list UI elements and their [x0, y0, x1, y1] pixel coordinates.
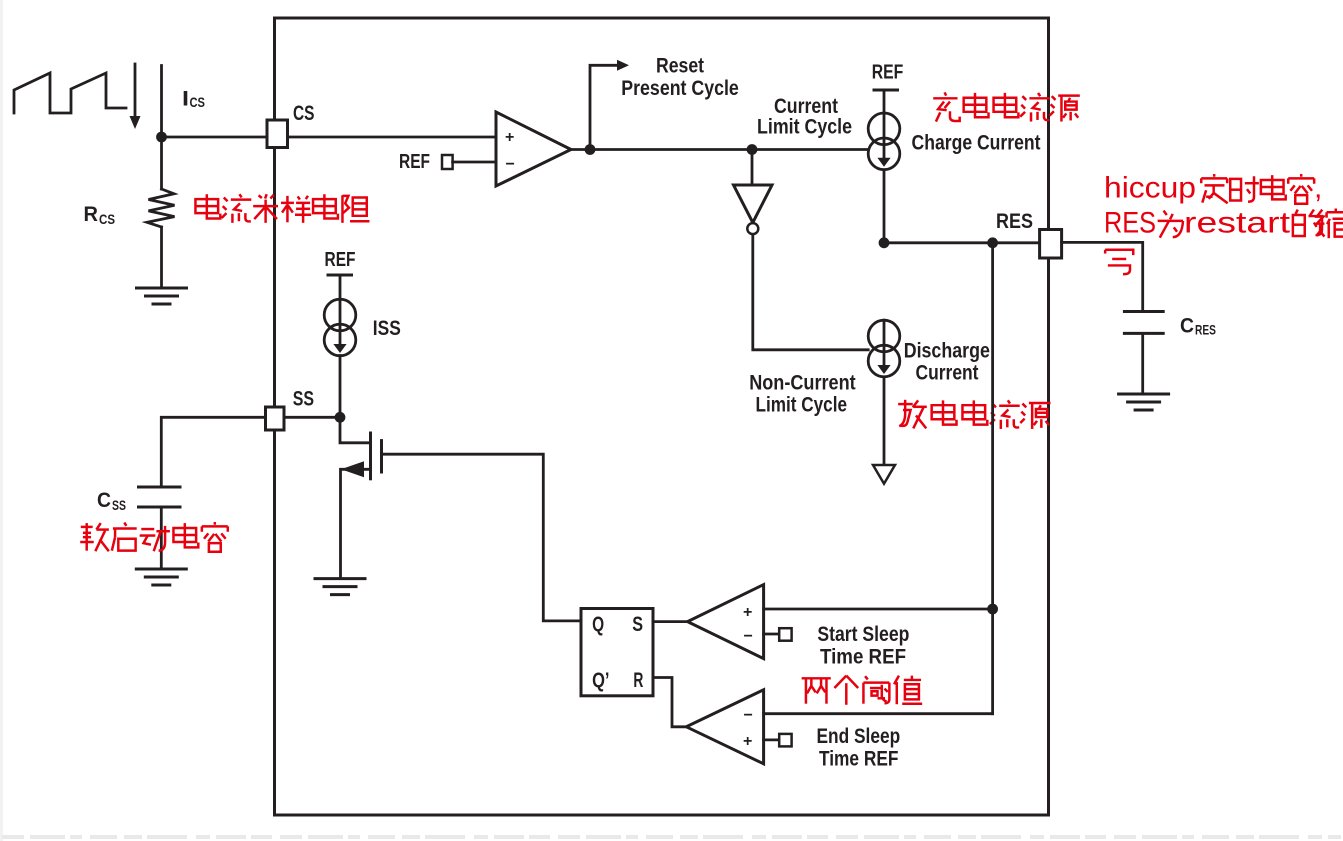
red note: two thresholds 两个阈值	[802, 676, 923, 705]
wire gate to latch	[382, 454, 582, 621]
red note line1 hiccup timing cap	[1104, 172, 1322, 205]
pin CS	[267, 120, 288, 148]
capacitor CSS	[139, 487, 181, 568]
wire comparator output main	[571, 148, 868, 151]
svg-text:Q: Q	[592, 613, 604, 636]
svg-text:SS: SS	[112, 497, 126, 513]
terminal square end sleep	[779, 734, 791, 747]
svg-text:REF: REF	[399, 151, 430, 173]
sawtooth current waveform	[14, 73, 126, 113]
resistor RCS	[147, 137, 175, 288]
wire REF to ISS source	[339, 275, 342, 300]
wire charge source to RES node	[883, 170, 886, 243]
label Discharge Current	[904, 339, 990, 384]
label REF	[399, 151, 430, 173]
svg-text:R: R	[84, 203, 99, 226]
svg-text:RES: RES	[1104, 207, 1156, 240]
reset arrow wire	[590, 60, 629, 150]
svg-text:−: −	[744, 628, 753, 645]
wire discharge source down	[883, 378, 886, 465]
wire U3 + input	[764, 608, 993, 611]
svg-text:Time REF: Time REF	[819, 747, 899, 770]
svg-text:CS: CS	[190, 94, 206, 110]
wire RES node down to sleep comparators	[991, 243, 994, 714]
red note: charge current source 充电电流源	[933, 92, 1080, 121]
wire U4 + input	[764, 739, 779, 742]
inverter U5	[734, 150, 773, 235]
capacitor CRES	[1124, 312, 1163, 394]
node U3 input	[987, 604, 998, 615]
wire SS pin to CSS	[161, 417, 265, 485]
wire U4 - input	[764, 712, 993, 715]
svg-text:RES: RES	[1195, 322, 1216, 338]
scan artifact left edge	[0, 0, 3, 841]
IC outline box	[275, 18, 1049, 815]
REF terminal square	[442, 155, 453, 169]
svg-text:REF: REF	[325, 249, 356, 271]
wire CS pin to comparator + input	[288, 136, 497, 139]
red note: discharge current source 放电电流源	[898, 400, 1050, 429]
ground CRES	[1119, 394, 1169, 410]
svg-text:Start Sleep: Start Sleep	[817, 623, 909, 646]
current source discharge	[868, 320, 900, 377]
red note: soft start cap 软启动电容	[80, 522, 228, 552]
node inverter tap	[747, 144, 758, 155]
label Non-Current Limit Cycle	[749, 371, 856, 416]
node RES row right	[987, 237, 998, 248]
wire ISS to SS node	[339, 356, 342, 418]
wire RES pin to CRES	[1062, 242, 1143, 311]
svg-text:I: I	[182, 88, 189, 111]
svg-text:+: +	[743, 733, 752, 750]
node comparator output	[585, 144, 596, 155]
svg-text:Charge Current: Charge Current	[912, 131, 1041, 154]
svg-text:Discharge: Discharge	[904, 339, 990, 362]
label CRES	[1180, 315, 1216, 338]
label SS	[293, 388, 314, 411]
node RES row left	[879, 237, 890, 248]
label Reset Present Cycle	[621, 55, 739, 101]
svg-text:Reset: Reset	[656, 55, 704, 78]
svg-text:Q’: Q’	[592, 669, 609, 692]
svg-text:−: −	[506, 156, 515, 173]
terminal square start sleep	[779, 628, 791, 641]
REF rail bar ISS	[328, 274, 352, 277]
op-amp U1 comparator	[496, 112, 571, 186]
svg-text:restart: restart	[1184, 207, 1291, 240]
label REF ISS	[325, 249, 356, 271]
label RCS	[84, 203, 116, 227]
wire REF square to comparator - input	[453, 161, 496, 164]
red note: current sense resistor 电流采样电阻	[195, 194, 369, 223]
svg-text:hiccup: hiccup	[1104, 172, 1196, 205]
ground CSS	[136, 569, 186, 585]
svg-text:C: C	[1180, 315, 1194, 338]
transistor Q1	[340, 417, 382, 577]
wire RES row	[884, 241, 1040, 244]
current source charge	[868, 113, 900, 170]
ground Q1	[315, 579, 365, 595]
label REF charge	[872, 61, 904, 83]
wire REF to charge source	[883, 90, 886, 114]
svg-text:Non-Current: Non-Current	[749, 371, 856, 394]
label End Sleep Time REF	[817, 725, 901, 771]
node at RCS top	[156, 132, 167, 143]
svg-text:End Sleep: End Sleep	[817, 725, 901, 748]
wire ICS vertical	[160, 66, 163, 138]
svg-text:,: ,	[1314, 172, 1322, 205]
label CSS	[97, 489, 126, 513]
wire node to CS pin	[162, 136, 268, 139]
latch U2 SR	[581, 609, 653, 696]
current source ISS	[324, 299, 356, 356]
svg-text:Limit Cycle: Limit Cycle	[756, 394, 848, 417]
label Current Limit Cycle	[757, 95, 852, 139]
svg-text:C: C	[97, 489, 111, 512]
svg-text:Current: Current	[916, 361, 979, 384]
red note line2 RES means restart	[1104, 207, 1343, 240]
label RES	[996, 210, 1033, 233]
svg-text:+: +	[743, 604, 752, 621]
node SS	[335, 412, 346, 423]
pin SS	[266, 407, 285, 430]
wire U3 - input	[764, 633, 779, 636]
svg-text:RES: RES	[996, 210, 1033, 233]
svg-text:−: −	[744, 707, 753, 724]
svg-text:CS: CS	[293, 102, 315, 125]
svg-text:Limit Cycle: Limit Cycle	[757, 116, 852, 139]
op-amp U3 start sleep comparator	[688, 585, 764, 659]
svg-text:Current: Current	[774, 95, 838, 118]
svg-text:S: S	[632, 613, 643, 636]
label Charge Current	[912, 131, 1041, 154]
wire S input	[653, 620, 688, 623]
svg-text:Present Cycle: Present Cycle	[621, 77, 739, 100]
op-amp U4 end sleep comparator	[686, 690, 763, 764]
svg-text:REF: REF	[872, 61, 904, 83]
red note line3	[1105, 250, 1133, 274]
label ICS	[182, 88, 205, 111]
wire SS pin to node	[284, 416, 340, 419]
scan artifact bottom text strip	[2, 835, 1341, 839]
wire R input	[653, 678, 686, 727]
wire inverter to discharge source	[753, 235, 868, 350]
svg-text:SS: SS	[293, 388, 314, 411]
label CS	[293, 102, 315, 125]
svg-text:CS: CS	[99, 211, 115, 227]
waveform arrow	[130, 64, 141, 129]
label Start Sleep Time REF	[817, 623, 909, 669]
label ISS	[373, 317, 401, 340]
svg-text:Time REF: Time REF	[820, 645, 906, 668]
REF rail bar charge	[874, 89, 898, 92]
svg-text:ISS: ISS	[373, 317, 401, 340]
open arrow down	[873, 465, 895, 484]
svg-text:R: R	[633, 669, 643, 692]
ground RCS	[137, 288, 187, 304]
pin RES	[1040, 230, 1062, 259]
svg-text:+: +	[505, 129, 514, 146]
